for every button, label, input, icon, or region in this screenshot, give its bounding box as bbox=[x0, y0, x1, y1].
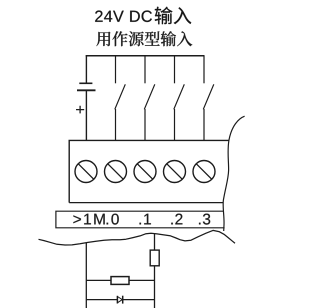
terminal label .2 bbox=[171, 214, 182, 225]
terminal label strip outline bbox=[56, 211, 225, 228]
terminal screw .3 bbox=[193, 161, 215, 183]
title line 1: 24V DC 输入 bbox=[95, 7, 191, 25]
resistor R1 (vertical, input series) bbox=[150, 250, 159, 266]
switch S1 (input .0) bbox=[115, 55, 126, 140]
wire: diode branch bbox=[86, 299, 154, 301]
terminal screw 1M bbox=[75, 161, 97, 183]
terminal label .3 bbox=[199, 214, 210, 225]
wire: horizontal resistor branch bbox=[86, 279, 154, 281]
terminal label .0 bbox=[107, 214, 119, 225]
switch S3 (input .2) bbox=[174, 55, 185, 140]
title line 2: 用作源型输入 bbox=[96, 31, 192, 46]
diode D1 bbox=[117, 296, 122, 304]
switch S4 (input .3) bbox=[203, 55, 214, 140]
battery + polarity label bbox=[76, 106, 84, 114]
24V DC supply bus wire (top) bbox=[86, 55, 205, 57]
wire: input channel rail (right vertical, below tear) bbox=[154, 233, 156, 308]
terminal screw .0 bbox=[105, 161, 127, 183]
terminal label .1 bbox=[140, 214, 151, 225]
torn edge curve (right side of module) bbox=[223, 116, 244, 231]
wire: internal 1M rail (left vertical, below tear) bbox=[85, 243, 87, 308]
terminal screw .1 bbox=[134, 161, 156, 183]
terminal block outline bbox=[69, 140, 229, 202]
terminal label >1M bbox=[73, 214, 104, 225]
terminal screw .2 bbox=[164, 161, 186, 183]
wire: battery to terminal 1M bbox=[85, 90, 87, 140]
switch S2 (input .1) bbox=[144, 55, 155, 140]
torn edge wavy line (bottom tear) bbox=[39, 230, 236, 245]
battery B1 plates bbox=[77, 83, 96, 90]
wire: bus to battery bbox=[85, 55, 87, 83]
resistor R2 (horizontal) bbox=[111, 277, 129, 285]
